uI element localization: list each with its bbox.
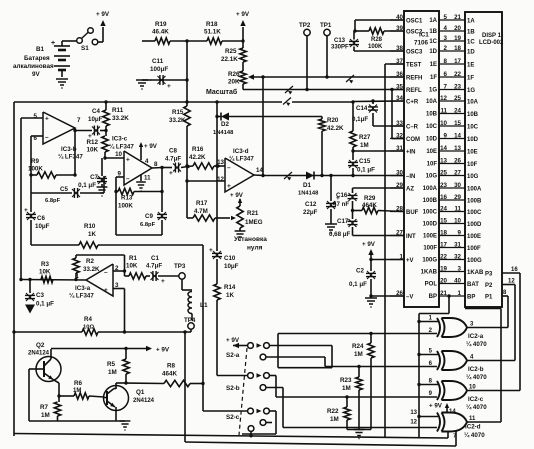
svg-text:10G: 10G [467,174,479,180]
svg-text:10K: 10K [86,147,98,154]
svg-text:6: 6 [444,71,448,78]
svg-text:R12: R12 [86,139,98,146]
svg-text:4: 4 [145,158,149,165]
svg-text:10F: 10F [427,162,438,168]
svg-text:BAT: BAT [467,282,479,288]
svg-text:9: 9 [444,132,448,139]
svg-text:1B: 1B [429,29,437,35]
svg-text:12: 12 [217,176,224,183]
svg-text:1N4148: 1N4148 [298,191,319,197]
svg-text:S1: S1 [81,45,89,52]
capacitor C14 [372,101,374,104]
svg-text:16: 16 [511,267,518,273]
wire Q1 collector node [116,382,126,384]
capacitor C15 [352,151,354,160]
svg-text:C5: C5 [60,186,68,193]
svg-text:10F: 10F [467,162,478,168]
wire IC3-c output [152,167,162,170]
svg-text:R24: R24 [352,343,364,350]
svg-text:10: 10 [454,217,461,224]
resistor R28 [384,30,404,32]
svg-text:–: – [126,176,130,183]
capacitor C2 [370,260,372,272]
svg-text:1M: 1M [342,385,351,392]
svg-text:D1: D1 [303,182,311,189]
svg-text:+: + [104,287,108,294]
svg-text:11: 11 [454,205,461,212]
svg-text:100C: 100C [467,210,482,216]
svg-text:42.2K: 42.2K [189,154,206,161]
svg-text:TP3: TP3 [174,263,186,270]
svg-text:R20: R20 [327,117,339,124]
svg-text:+ 9V: + 9V [362,241,376,248]
svg-text:1A: 1A [429,18,437,24]
ground below battery [56,78,68,80]
resistor R4 [82,329,98,335]
wire R4 line [14,331,82,333]
svg-text:1K: 1K [88,231,96,238]
resistor R13 [116,191,118,193]
wire S2 feed column [202,245,204,411]
wire IC2-b output to P2 [467,360,515,362]
svg-text:11: 11 [469,416,476,422]
svg-text:алкалиновая: алкалиновая [13,63,54,70]
svg-text:8: 8 [444,58,448,65]
svg-text:C1: C1 [151,255,159,262]
svg-text:R1: R1 [129,255,137,262]
svg-text:1N4148: 1N4148 [213,130,234,136]
svg-text:R25: R25 [225,48,237,55]
wire IC3-d output node [254,174,263,177]
wire break mark [283,98,291,105]
svg-text:20K: 20K [228,79,240,86]
capacitor C5 [31,192,72,194]
svg-text:1C: 1C [429,39,437,45]
svg-text:R10: R10 [84,223,96,230]
svg-text:330PF: 330PF [331,45,349,51]
svg-text:IC3-c: IC3-c [112,136,128,143]
svg-text:R2: R2 [86,258,94,265]
svg-text:REFL: REFL [406,88,422,94]
svg-text:6.8pF: 6.8pF [140,222,156,228]
svg-text:18: 18 [454,45,461,52]
wire feedback to output [74,130,76,175]
svg-text:BUF: BUF [406,210,419,216]
wire R1 line [124,271,126,276]
svg-text:10μF: 10μF [88,116,103,123]
svg-text:COM: COM [406,137,420,143]
svg-text:POL: POL [425,282,438,288]
capacitor C9 [161,192,163,213]
resistor R9 [31,174,37,176]
wire vertical divider node [186,41,188,80]
svg-text:R7: R7 [40,404,49,411]
svg-text:3: 3 [444,35,448,42]
svg-text:10K: 10K [39,269,51,276]
svg-text:R27: R27 [359,134,371,141]
svg-text:R14: R14 [224,284,236,291]
wire REFH pin36 to R26 wiper [252,76,404,78]
svg-text:Q1: Q1 [136,389,145,396]
svg-text:27: 27 [454,169,461,176]
resistor R7 [58,396,60,402]
svg-text:+ 9V: + 9V [230,192,244,199]
svg-text:¼ LF347: ¼ LF347 [69,293,94,300]
wire +V pin1 [371,259,404,261]
svg-text:D2: D2 [221,121,229,128]
svg-text:10: 10 [440,120,447,127]
svg-text:10μF: 10μF [224,263,239,270]
svg-text:18: 18 [440,229,447,236]
ground arrow at C3 [25,305,35,314]
svg-text:17: 17 [454,58,461,65]
svg-text:30: 30 [454,182,461,189]
dashed gang line S2 [239,348,247,435]
wire S2-a throw1 to gate a [270,345,333,347]
display DISP1 LCD-002 body [465,12,502,307]
wire S2-c throw1 stub [270,410,277,412]
svg-text:15: 15 [440,217,447,224]
wire pin6 input [31,135,43,137]
op-amp IC3-a mirrored [86,264,113,296]
svg-text:10E: 10E [467,149,478,155]
wire resistor commons [347,429,371,431]
resistor R29 [362,207,378,213]
potentiometer R26 scale adjust [242,62,244,71]
svg-text:10Ω: 10Ω [83,325,94,331]
transistor Q1 2N4124 [104,386,129,411]
svg-text:R29: R29 [364,195,376,202]
svg-text:BP: BP [467,294,475,300]
svg-text:C–R: C–R [406,124,419,130]
svg-text:23: 23 [454,83,461,90]
resistor R3 [41,276,53,282]
wire down to lower rail [184,332,186,442]
svg-text:100E: 100E [423,234,437,240]
resistor R27 [352,102,354,131]
svg-text:0,1μF: 0,1μF [352,116,368,123]
capacitor C12 [330,176,332,202]
XOR gate IC2-d [419,416,438,418]
wire REFL pin35 line [243,89,404,91]
svg-text:10C: 10C [467,124,479,130]
wire pin2 stub [113,270,125,272]
svg-text:1E: 1E [467,62,474,68]
op-amp IC3-d [225,158,254,192]
svg-text:0,1 μF: 0,1 μF [357,167,375,174]
switch S2-b throw2 [260,385,266,391]
svg-text:19: 19 [454,35,461,42]
svg-text:1D: 1D [429,49,437,55]
svg-text:21: 21 [454,14,461,21]
wire IC3-c pin9 loop [116,176,124,178]
svg-text:100K: 100K [118,203,133,210]
svg-text:24: 24 [440,205,447,212]
svg-text:6.8pF: 6.8pF [45,198,61,204]
svg-text:C8: C8 [169,148,177,155]
svg-text:7: 7 [444,83,448,90]
svg-text:20: 20 [454,25,461,32]
wire -IN pin30 line [263,175,404,177]
wire L1 to TP4 [191,314,193,321]
svg-text:P3: P3 [485,272,493,278]
svg-text:1M: 1M [41,412,50,419]
svg-text:1E: 1E [430,62,437,68]
switch S2-a throw2 [260,354,266,360]
switch S1 [62,40,77,42]
resistor R1 [129,273,146,279]
svg-text:P1: P1 [485,295,493,301]
resistor R18 [207,38,222,44]
svg-text:¼ LF347: ¼ LF347 [229,156,254,163]
resistor R10 [79,242,98,248]
svg-text:17: 17 [440,241,447,248]
resistor R20 [321,117,323,120]
svg-text:22: 22 [454,71,461,78]
svg-text:C12: C12 [305,201,317,208]
wire guard bottom rail [14,434,448,439]
+9V arrow at S1 [100,20,105,26]
svg-text:100B: 100B [467,198,482,204]
svg-text:13: 13 [440,157,447,164]
svg-text:100G: 100G [467,258,482,264]
svg-text:22μF: 22μF [303,209,318,216]
svg-text:C6: C6 [37,215,45,222]
wire +9V rail top with R19 R18 [142,40,155,42]
svg-text:S2-c: S2-c [226,414,240,421]
svg-text:464K: 464K [362,202,377,209]
svg-text:P2: P2 [485,283,493,289]
svg-text:R15: R15 [172,109,184,116]
potentiometer R21 zero set [231,216,236,220]
svg-text:10G: 10G [426,174,438,180]
svg-text:LCD-002: LCD-002 [479,40,504,46]
svg-text:9: 9 [458,229,462,236]
svg-text:21: 21 [440,290,447,297]
svg-text:100A: 100A [467,186,482,192]
svg-text:5: 5 [34,113,38,120]
switch S2-c throw2 [260,420,266,426]
svg-text:Масштаб: Масштаб [206,88,238,96]
wire output node line [21,279,86,282]
svg-text:4.7μF: 4.7μF [165,156,181,163]
capacitor C7 [101,158,103,176]
svg-text:Батарея: Батарея [24,55,50,62]
svg-text:нуля: нуля [247,245,263,252]
svg-text:10B: 10B [467,112,479,118]
resistor R15 [186,102,188,106]
svg-text:22: 22 [440,253,447,260]
svg-text:1G: 1G [467,88,475,94]
svg-text:464K: 464K [162,371,178,378]
wire +9V rail Q area [51,348,126,350]
svg-text:+ 9V: + 9V [144,143,158,150]
svg-text:10D: 10D [426,137,438,143]
wire pin3 down [113,288,125,290]
wire long top line y102 [14,101,282,103]
svg-text:1G: 1G [429,88,437,94]
wire R15 chain down [186,166,188,181]
ground at C12 [325,223,337,225]
XOR gate IC2-a [419,321,438,323]
svg-text:C17: C17 [337,218,349,225]
svg-text:IC3-a: IC3-a [75,285,91,292]
svg-text:25: 25 [454,95,461,102]
wire S2-b throw2 to gate d [266,387,283,389]
svg-text:BP: BP [429,294,437,300]
svg-text:29: 29 [454,194,461,201]
resistor R17 [187,217,193,219]
wire Q2 base to rail [28,369,30,421]
svg-text:23: 23 [440,182,447,189]
resistor R16 [193,163,214,169]
resistor R2 feedback [75,273,77,280]
svg-text:1F: 1F [430,75,437,81]
svg-text:TP1: TP1 [320,22,332,29]
svg-text:R6: R6 [74,380,83,387]
svg-text:R13: R13 [121,195,133,202]
svg-text:0,1 μF: 0,1 μF [349,281,367,288]
resistor R6 [59,395,74,397]
svg-text:10D: 10D [467,137,479,143]
svg-text:+: + [169,170,173,177]
wire left guard edge [13,102,15,436]
wire C+R pin34 [353,100,404,103]
svg-text:R22: R22 [327,408,339,415]
svg-text:R28: R28 [371,37,383,43]
svg-text:C13: C13 [334,38,346,44]
svg-text:100A: 100A [423,186,438,192]
svg-text:100D: 100D [423,222,438,228]
svg-text:IC2-b: IC2-b [468,366,484,373]
svg-text:100μF: 100μF [150,66,168,73]
svg-text:+: + [126,157,130,164]
svg-text:S2-a: S2-a [226,352,240,359]
svg-text:7106: 7106 [414,40,429,47]
svg-text:100C: 100C [423,210,438,216]
svg-text:22.1K: 22.1K [221,56,238,63]
wire pin5 input [21,117,43,119]
svg-text:R26: R26 [228,71,240,78]
wire break mark [346,75,354,82]
capacitor C13 [353,47,355,52]
svg-text:¼ 4070: ¼ 4070 [466,341,487,348]
capacitor C1 [152,271,154,281]
ground at C11 [136,79,148,81]
svg-text:¼ 4070: ¼ 4070 [466,404,487,411]
svg-text:1M: 1M [330,416,339,423]
wire REFL to COM [391,90,393,139]
svg-text:24: 24 [454,107,461,114]
wire +IN pin31 [353,150,404,152]
svg-text:REFH: REFH [406,75,422,81]
svg-text:R9: R9 [31,158,39,165]
wire -V pin26 [371,295,404,297]
wire emitter rail [29,420,125,422]
svg-text:C2: C2 [356,268,364,275]
diode D2 1N4148 feedback [217,116,221,118]
capacitor C10 [216,166,218,251]
svg-text:2N4124: 2N4124 [133,398,155,404]
resistor R25 [242,41,244,48]
resistor R22 [345,395,348,398]
XOR gate IC2-b [419,354,438,356]
svg-text:4: 4 [444,25,448,32]
ground at R21 [235,230,246,232]
oscillator node wire pins 40 39 38 [355,19,404,21]
svg-text:IC2-c: IC2-c [468,396,484,403]
svg-text:AZ: AZ [406,186,414,192]
wire TEST to IC2 pin7 [447,431,449,439]
svg-text:+: + [167,83,171,90]
XOR gate IC2-c [419,384,438,386]
op-amp IC3-b [43,112,75,144]
svg-text:R17: R17 [196,200,208,207]
svg-text:42.2K: 42.2K [327,125,344,132]
svg-text:C7: C7 [90,174,98,181]
svg-text:100F: 100F [423,246,437,252]
svg-text:11: 11 [144,175,151,182]
capacitor C17 [352,211,354,220]
svg-text:3: 3 [458,265,462,272]
wire lower rail [185,442,456,446]
svg-text:10A: 10A [467,99,479,105]
svg-text:10A: 10A [426,99,438,105]
svg-text:1M: 1M [108,369,117,376]
svg-text:TP2: TP2 [299,22,311,29]
svg-text:12: 12 [440,95,447,102]
wire INT pin27 [353,235,405,237]
wire IC2-c output to P3 [467,390,520,392]
capacitor C3 [29,280,31,294]
svg-text:0,1 μF: 0,1 μF [36,301,54,308]
svg-text:7: 7 [77,117,81,124]
svg-text:51.1K: 51.1K [204,29,221,36]
svg-text:100F: 100F [467,246,481,252]
svg-text:R16: R16 [192,146,204,153]
svg-text:C11: C11 [152,58,164,65]
ground at R22 R23 R24 [354,429,365,431]
svg-text:C9: C9 [145,213,153,220]
svg-text:16: 16 [440,194,447,201]
resistor R24 [369,332,372,335]
svg-text:100D: 100D [467,222,482,228]
wire R10 line [31,244,79,246]
svg-text:L1: L1 [200,302,208,309]
svg-text:+ 9V: + 9V [226,337,240,344]
svg-text:–V: –V [406,294,413,300]
svg-text:0,68 μF: 0,68 μF [329,231,351,238]
svg-text:+: + [161,278,165,285]
svg-text:10: 10 [115,151,122,158]
ground at C2 [365,297,377,299]
svg-text:1KAB: 1KAB [467,270,484,276]
svg-text:C14: C14 [356,105,368,112]
svg-text:47 nF: 47 nF [333,201,349,208]
svg-text:R3: R3 [41,261,49,268]
resistor R11 [105,102,107,110]
switch S2-c bottom contact [248,426,254,432]
svg-text:26: 26 [454,157,461,164]
svg-text:4.7μF: 4.7μF [146,263,162,270]
svg-text:+: + [45,116,49,123]
wire IC3-b output [74,128,76,131]
svg-text:100K: 100K [368,44,383,50]
resistor R14 [214,284,220,300]
svg-text:1F: 1F [467,75,474,81]
svg-text:13: 13 [410,410,417,416]
op-amp IC3-c [124,151,152,185]
